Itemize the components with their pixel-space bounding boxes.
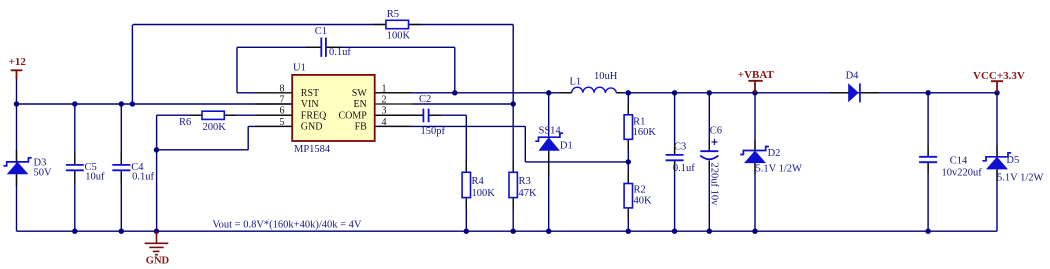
svg-text:10uf: 10uf bbox=[85, 172, 105, 183]
svg-text:GND: GND bbox=[301, 122, 323, 133]
svg-text:R4: R4 bbox=[472, 176, 485, 187]
svg-text:10v220uf: 10v220uf bbox=[942, 168, 983, 179]
svg-text:Vout = 0.8V*(160k+40k)/40k = 4: Vout = 0.8V*(160k+40k)/40k = 4V bbox=[212, 219, 362, 230]
svg-text:R5: R5 bbox=[387, 9, 399, 20]
svg-text:1: 1 bbox=[382, 83, 387, 94]
svg-text:SS14: SS14 bbox=[539, 126, 562, 137]
svg-text:R6: R6 bbox=[179, 117, 191, 128]
svg-text:5.1V 1/2W: 5.1V 1/2W bbox=[756, 163, 803, 174]
svg-text:2: 2 bbox=[382, 95, 387, 106]
svg-text:100K: 100K bbox=[387, 31, 411, 42]
svg-text:0.1uf: 0.1uf bbox=[673, 163, 695, 174]
svg-text:VIN: VIN bbox=[301, 99, 319, 110]
svg-text:5: 5 bbox=[280, 117, 285, 128]
svg-text:C2: C2 bbox=[419, 94, 431, 105]
svg-text:SW: SW bbox=[352, 88, 368, 99]
svg-text:7: 7 bbox=[280, 95, 285, 106]
svg-text:5.1V 1/2W: 5.1V 1/2W bbox=[997, 172, 1044, 183]
svg-text:FB: FB bbox=[355, 122, 368, 133]
svg-text:D1: D1 bbox=[560, 141, 573, 152]
svg-text:C6: C6 bbox=[710, 126, 722, 137]
svg-text:D4: D4 bbox=[846, 70, 860, 81]
svg-text:50V: 50V bbox=[34, 168, 53, 179]
svg-text:FREQ: FREQ bbox=[301, 110, 327, 121]
svg-text:R1: R1 bbox=[633, 117, 645, 128]
svg-text:0.1uf: 0.1uf bbox=[329, 47, 351, 58]
svg-text:+12: +12 bbox=[9, 56, 27, 68]
svg-text:4: 4 bbox=[382, 117, 387, 128]
svg-text:C3: C3 bbox=[674, 141, 686, 152]
svg-text:40K: 40K bbox=[634, 196, 653, 207]
svg-text:EN: EN bbox=[353, 99, 366, 110]
svg-text:100K: 100K bbox=[472, 188, 496, 199]
svg-text:+VBAT: +VBAT bbox=[738, 69, 775, 81]
svg-text:R3: R3 bbox=[519, 176, 531, 187]
svg-text:160K: 160K bbox=[633, 127, 657, 138]
svg-text:3: 3 bbox=[382, 106, 387, 117]
svg-text:VCC+3.3V: VCC+3.3V bbox=[973, 70, 1025, 82]
svg-text:D5: D5 bbox=[1006, 155, 1019, 166]
svg-text:R2: R2 bbox=[634, 185, 646, 196]
svg-text:200K: 200K bbox=[203, 122, 227, 133]
svg-text:47K: 47K bbox=[519, 188, 538, 199]
svg-text:C1: C1 bbox=[315, 26, 327, 37]
svg-text:L1: L1 bbox=[570, 76, 582, 87]
svg-text:6: 6 bbox=[280, 106, 285, 117]
svg-text:U1: U1 bbox=[293, 63, 306, 74]
svg-text:GND: GND bbox=[146, 255, 170, 266]
svg-text:RST: RST bbox=[301, 88, 319, 99]
svg-text:150pf: 150pf bbox=[421, 126, 446, 137]
svg-text:COMP: COMP bbox=[338, 110, 367, 121]
svg-text:D2: D2 bbox=[768, 148, 781, 159]
svg-text:220uf 10v: 220uf 10v bbox=[708, 163, 719, 207]
svg-text:C14: C14 bbox=[950, 155, 968, 166]
svg-text:10uH: 10uH bbox=[594, 71, 618, 82]
svg-text:0.1uf: 0.1uf bbox=[132, 172, 154, 183]
svg-text:8: 8 bbox=[280, 83, 285, 94]
svg-text:MP1584: MP1584 bbox=[294, 144, 331, 155]
